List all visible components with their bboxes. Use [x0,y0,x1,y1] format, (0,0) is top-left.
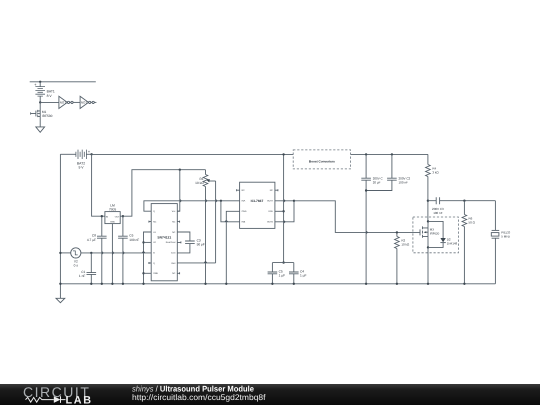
svg-text:IRF620: IRF620 [430,232,440,236]
svg-text:SN74121: SN74121 [157,236,171,240]
node V2 left junction [59,252,61,254]
svg-text:NC: NC [172,220,176,223]
wire battery junction down to regulator IN [92,154,105,216]
wire bus drop to INB [221,201,240,222]
IC U4 SN74121 [151,204,177,281]
piezo transducer PIEZO [491,201,511,284]
dashed box M3 D2 [413,217,459,253]
node battery top junction [39,81,41,83]
svg-text:http://circuitlab.com/ccu5gd2t: http://circuitlab.com/ccu5gd2tmbq8f [132,393,266,402]
capacitor C6 [118,216,139,284]
svg-text:IRF530: IRF530 [42,114,53,118]
ground main [56,284,65,303]
svg-text:GND: GND [153,272,158,275]
svg-text:Boost Converters: Boost Converters [309,160,335,164]
Boost Converters block [293,150,350,169]
svg-text:Q: Q [153,262,155,265]
wire hop caps leg over gate line [366,231,368,235]
wire OUTB join OUTA [275,201,294,222]
wire hop Vcc vertical over Q line [180,199,182,203]
svg-text:BAT1: BAT1 [47,90,55,94]
resistor R2 [395,232,410,283]
wire regulator OUT up to 5V rail [120,170,205,217]
node VDD pin junction [282,210,284,212]
transistor M3 [420,226,440,237]
wire hop INB over GND leg [224,220,228,222]
voltage regulator U3 LM7805 [105,203,120,223]
svg-text:INB: INB [242,221,246,224]
wire top supply rail [92,153,428,155]
battery BAT1 [34,82,55,103]
node source loop junction [427,246,429,248]
svg-text:Q: Q [153,210,155,213]
wire hop B line over A leg [142,251,146,253]
wire ICL7667 GND to ground rail [226,211,239,283]
svg-text:1 µF: 1 µF [300,274,306,278]
pin stub NC bottom right [177,272,179,274]
node C8 top junction [101,215,103,217]
svg-text:IN: IN [106,215,109,218]
resistor R4 [426,154,440,221]
node VDD rail top junction [282,153,284,155]
svg-text:Rext/Cext: Rext/Cext [166,241,176,244]
svg-text:GND: GND [242,210,247,213]
node C6 top junction [122,215,124,217]
svg-text:+: + [88,149,91,154]
pin stub GND SN74121 [144,272,152,274]
svg-text:100 nF: 100 nF [399,180,409,184]
svg-text:NC: NC [242,189,246,192]
capacitor C3 loop [177,232,205,253]
svg-text:10 kΩ: 10 kΩ [401,243,410,247]
svg-text:10 kΩ: 10 kΩ [195,181,204,185]
node 200V C top junction [365,153,367,155]
pin stub Vcc [177,210,180,212]
svg-text:50 Ω: 50 Ω [469,220,476,224]
pin stub NC right 2 [177,221,179,223]
pin stub NC left ICL7667 [237,189,240,191]
wire regulator GND down to ground rail [111,224,113,284]
node 200V C2 top junction [391,153,393,155]
node GND junction [142,272,144,274]
wire hop Rint over R1 leg [204,261,208,263]
footer bar [0,384,540,405]
svg-text:1 µF: 1 µF [279,274,285,278]
svg-text:5 MHz: 5 MHz [501,235,510,239]
svg-text:8 V: 8 V [47,94,53,98]
node battery right junction [90,153,92,155]
capacitor 200V C2 [366,154,410,190]
node C1 top junction [90,252,92,254]
svg-text:NC: NC [172,231,176,234]
svg-text:90 pF: 90 pF [197,243,205,247]
wire Q output to bus [144,201,240,211]
node drain loop junction [427,220,429,222]
svg-text:NC: NC [270,189,274,192]
svg-text:ICL7667: ICL7667 [251,199,264,203]
NOT gate U2 [80,96,96,108]
pin stub NC right ICL7667 [275,189,278,191]
ground mini circuit [36,127,45,132]
capacitor C1 [79,253,96,284]
svg-text:OUTB: OUTB [267,221,274,224]
svg-text:4.7 µF: 4.7 µF [87,238,96,242]
wire OUTA to node [275,200,294,202]
pin stub VDD [275,210,284,212]
node R2 top junction [396,231,398,233]
capacitor C4 [289,263,306,284]
svg-text:1 nF: 1 nF [79,274,85,278]
pin stub Qbar [149,262,151,264]
wire to NOT gate 1 [40,101,59,103]
ground rail junction dots [59,283,465,285]
svg-text:3 kΩ: 3 kΩ [432,170,439,174]
node OUTA OUTB junction [293,200,295,202]
svg-text:OUTA: OUTA [267,200,273,203]
node caps bottom junction [365,189,367,191]
diode D2 [428,221,458,247]
wire ground rail [60,283,495,285]
svg-text:VDD: VDD [268,210,273,213]
capacitor C5 [268,263,285,284]
resistor R6 [462,201,476,284]
svg-text:OUT: OUT [115,215,120,218]
svg-text:GND: GND [110,221,115,224]
svg-text:7805: 7805 [109,207,117,211]
svg-text:1N4148: 1N4148 [447,242,458,246]
svg-text:INA: INA [242,200,246,203]
wire M3 source down to rail [427,236,429,283]
svg-text:NOT: NOT [81,101,88,105]
node C5 C4 header junction [282,261,284,263]
svg-text:20 µF: 20 µF [373,180,381,184]
node bus to INB junction [220,200,222,202]
svg-text:Rint: Rint [172,262,176,265]
svg-text:100 nF: 100 nF [433,211,443,215]
node 5V rail junction to Vcc [179,169,181,171]
svg-text:Cext: Cext [171,252,176,255]
svg-text:NC: NC [153,220,157,223]
resistor R1 potentiometer [195,170,215,284]
capacitor 200V C3 [428,197,496,215]
svg-text:NOT: NOT [60,101,66,105]
transistor M1 [31,102,53,127]
voltage source V2 [60,248,151,268]
wire R1 wiper down to Rint [215,181,217,263]
wire Rint line [177,262,215,264]
NOT gate U1 [59,96,73,108]
svg-text:9 V: 9 V [78,166,84,170]
wire A1 A2 GND ground leg [144,232,152,284]
node mini mid junction [39,101,41,103]
wire M3 drain up [427,221,429,228]
wire VDD rail vertical [283,154,285,262]
node A2 junction [142,241,144,243]
node R4 bottom junction [427,200,429,202]
IC U5 driver ICL7667 [240,182,275,228]
svg-text:0 s: 0 s [74,264,79,268]
capacitor C8 [87,216,107,284]
battery BAT2 [60,149,91,170]
node R6 top junction [463,200,465,202]
svg-text:100 nF: 100 nF [129,238,139,242]
wire hop GND vertical over B line [112,251,114,255]
wire hop VDD vertical over OUTA [284,199,286,203]
wire hop VDD vertical over OUTB [284,220,286,224]
wire between gates [73,101,80,103]
capacitor 200V C [361,154,383,283]
wire left rail down [59,154,61,283]
wire hop wiper vertical over Q line [216,199,218,203]
svg-text:LAB: LAB [66,394,92,405]
wire OUTA to gate line [294,201,420,233]
pin stub A2 [144,241,152,243]
wire top rail of mini circuit [30,81,96,83]
pin stub NC left SN74121 [149,221,151,223]
wire C5 C4 header [272,262,293,264]
svg-text:NC: NC [172,272,176,275]
CircuitLab logo [23,384,92,405]
wire Vcc drop [177,170,180,212]
